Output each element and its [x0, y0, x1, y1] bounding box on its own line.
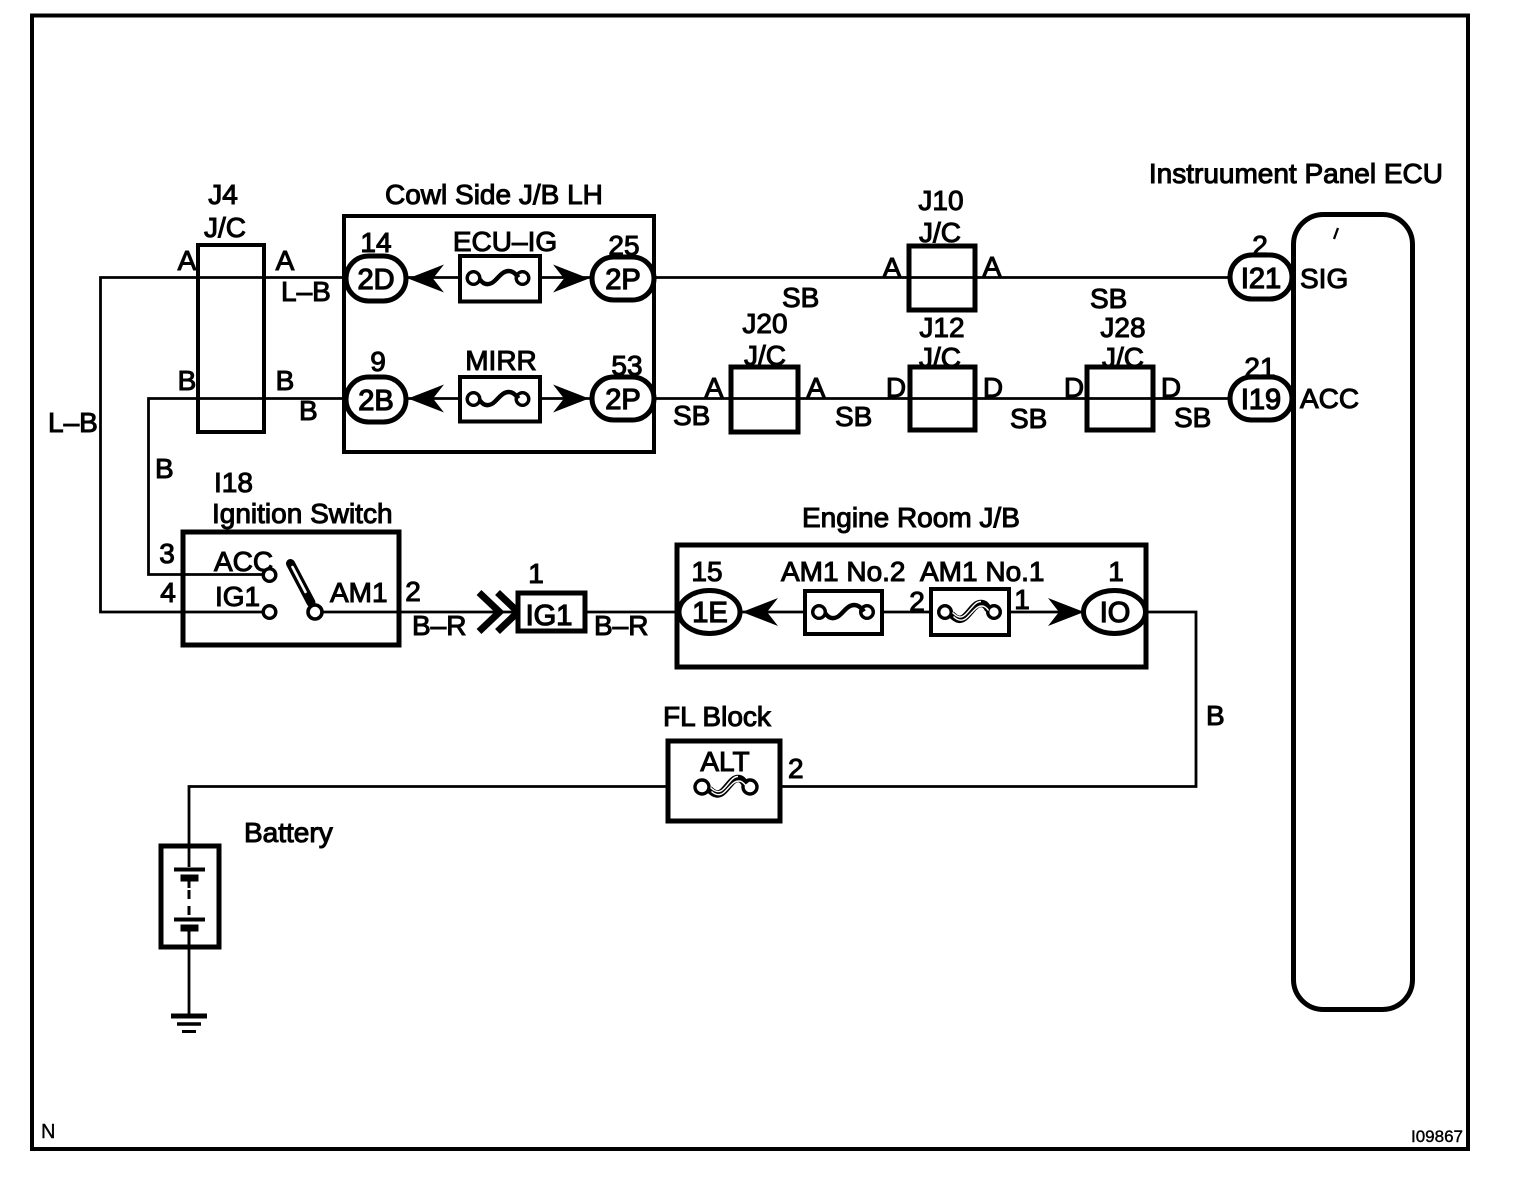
svg-text:FL Block: FL Block: [663, 701, 772, 732]
Cowl Side J/B LH block: [344, 216, 654, 452]
svg-text:2P: 2P: [605, 264, 640, 296]
connector 2D pin 14: [346, 256, 406, 301]
switch terminal IG1: [263, 606, 276, 619]
junction connector J12 J/C: [910, 367, 975, 430]
svg-text:D: D: [886, 372, 906, 403]
svg-text:2: 2: [909, 586, 925, 617]
fuse AM1 No.2: [805, 591, 882, 634]
svg-text:L–B: L–B: [48, 407, 98, 438]
wire: fuse row A inside Cowl Side J/B (2D to 2P): [406, 276, 592, 279]
svg-text:2: 2: [1252, 230, 1268, 261]
svg-text:I18: I18: [214, 467, 253, 498]
wire SB: row B from 2P through J20, J12, J28 to I19: [654, 397, 1231, 400]
svg-text:4: 4: [160, 577, 176, 608]
svg-text:N: N: [41, 1121, 55, 1143]
connector 2P pin 25: [592, 257, 654, 300]
svg-text:14: 14: [360, 227, 391, 258]
svg-text:Instruument Panel ECU: Instruument Panel ECU: [1149, 158, 1443, 189]
svg-text:9: 9: [370, 346, 386, 377]
svg-text:1: 1: [1108, 556, 1124, 587]
fuse MIRR: [460, 377, 540, 422]
svg-text:D: D: [1161, 372, 1181, 403]
svg-text:2: 2: [405, 576, 421, 607]
ground: [171, 1016, 207, 1032]
svg-text:B–R: B–R: [594, 610, 648, 641]
svg-text:15: 15: [691, 556, 722, 587]
arrowhead left (to 2B): [408, 385, 444, 413]
svg-text:J12: J12: [919, 312, 964, 343]
svg-text:SB: SB: [1174, 402, 1211, 433]
svg-text:2D: 2D: [357, 264, 394, 296]
inline connector chevrons: [479, 593, 500, 632]
svg-text:J10: J10: [918, 185, 963, 216]
svg-text:L–B: L–B: [281, 276, 331, 307]
arrowhead right (to IO): [1048, 598, 1084, 626]
wire: battery negative to ground: [188, 947, 191, 1016]
arrowhead left (to 2D): [408, 265, 444, 293]
svg-text:ACC: ACC: [1300, 383, 1359, 414]
switch lever: [291, 564, 312, 603]
svg-text:B: B: [155, 453, 174, 484]
wire: inside Engine Room J/B (1E to IO): [740, 611, 1084, 614]
svg-text:A: A: [276, 245, 295, 276]
switch terminal AM1: [308, 605, 322, 619]
battery: [161, 846, 219, 947]
svg-text:J/C: J/C: [204, 212, 246, 243]
fusible link AM1 No.1: [931, 589, 1009, 635]
svg-text:ALT: ALT: [700, 746, 749, 777]
svg-text:J/C: J/C: [919, 342, 961, 373]
svg-text:AM1 No.2: AM1 No.2: [781, 556, 906, 587]
svg-text:A: A: [178, 245, 197, 276]
wire B-R: ignition switch AM1 through IG1 connector to 1E: [323, 611, 681, 614]
svg-text:SB: SB: [835, 401, 872, 432]
Instrument Panel ECU block: [1294, 215, 1413, 1010]
fuse ECU-IG: [460, 256, 540, 302]
svg-text:A: A: [807, 372, 826, 403]
svg-text:2P: 2P: [605, 384, 640, 416]
wire L-B: row A from vertical riser to 2D, down to ignition switch IG1 terminal: [101, 278, 347, 613]
switch terminal ACC: [263, 569, 276, 582]
ignition switch I18: [183, 532, 399, 645]
svg-text:J28: J28: [1100, 312, 1145, 343]
svg-text:1: 1: [1014, 584, 1030, 615]
svg-text:AM1: AM1: [330, 577, 388, 608]
svg-text:MIRR: MIRR: [465, 345, 537, 376]
svg-text:J4: J4: [208, 179, 238, 210]
junction connector J10 J/C: [909, 246, 975, 310]
svg-text:A: A: [705, 372, 724, 403]
connector 1E pin 15: [679, 591, 740, 634]
svg-text:1E: 1E: [692, 597, 727, 629]
svg-text:B: B: [276, 365, 295, 396]
svg-text:J/C: J/C: [919, 217, 961, 248]
svg-text:D: D: [1064, 372, 1084, 403]
svg-text:SB: SB: [782, 282, 819, 313]
connector I19 pin 21: [1230, 377, 1292, 420]
wire SB: row A from 2P through J10 to I21: [654, 276, 1231, 279]
svg-text:AM1 No.1: AM1 No.1: [920, 556, 1045, 587]
svg-text:B–R: B–R: [412, 610, 466, 641]
fusible link ALT: [668, 741, 780, 821]
wire B: row B from riser to 2B, down to ignition switch ACC terminal: [149, 399, 347, 575]
svg-text:Cowl Side J/B LH: Cowl Side J/B LH: [385, 179, 603, 210]
svg-text:A: A: [983, 251, 1002, 282]
speck inside ECU: [1334, 228, 1338, 239]
connector 2P pin 53: [592, 377, 654, 420]
svg-text:J20: J20: [742, 308, 787, 339]
svg-text:D: D: [983, 372, 1003, 403]
svg-text:B: B: [299, 395, 318, 426]
svg-text:25: 25: [608, 230, 639, 261]
connector IO pin 1: [1084, 591, 1146, 634]
svg-text:Ignition Switch: Ignition Switch: [212, 498, 393, 529]
svg-text:2B: 2B: [358, 385, 393, 417]
arrowhead right (to 2P 53): [553, 385, 589, 413]
svg-text:A: A: [883, 252, 902, 283]
svg-text:IG1: IG1: [526, 600, 573, 632]
svg-text:B: B: [1206, 700, 1225, 731]
svg-text:1: 1: [528, 558, 544, 589]
svg-text:B: B: [178, 365, 197, 396]
svg-text:3: 3: [159, 538, 175, 569]
svg-text:21: 21: [1244, 352, 1275, 383]
arrowhead right (to 2P 25): [553, 265, 589, 293]
svg-text:IO: IO: [1100, 597, 1131, 629]
wire B: from IO down and left through ALT to battery: [189, 612, 1196, 847]
connector I21 pin 2: [1230, 255, 1292, 299]
junction connector J4 J/C: [198, 245, 264, 432]
svg-text:SB: SB: [1010, 403, 1047, 434]
svg-text:I09867: I09867: [1411, 1127, 1463, 1146]
svg-text:J/C: J/C: [1102, 342, 1144, 373]
svg-text:IG1: IG1: [215, 581, 260, 612]
svg-text:Battery: Battery: [244, 817, 333, 848]
arrowhead left (to 1E): [742, 598, 778, 626]
Engine Room J/B block: [677, 545, 1146, 667]
svg-text:SB: SB: [673, 400, 710, 431]
svg-text:I19: I19: [1241, 384, 1281, 416]
junction connector J28 J/C: [1087, 367, 1153, 430]
connector 2B pin 9: [346, 377, 406, 422]
svg-text:Engine Room J/B: Engine Room J/B: [802, 502, 1020, 533]
svg-text:J/C: J/C: [744, 340, 786, 371]
svg-text:SIG: SIG: [1300, 263, 1348, 294]
svg-text:53: 53: [611, 350, 642, 381]
junction connector J20 J/C: [731, 367, 798, 432]
svg-text:I21: I21: [1241, 263, 1281, 295]
svg-text:SB: SB: [1090, 283, 1127, 314]
svg-text:ECU–IG: ECU–IG: [453, 226, 557, 257]
svg-text:2: 2: [788, 753, 804, 784]
connector IG1 pin 1: [518, 593, 585, 631]
wire: fuse row B inside Cowl Side J/B (2B to 2P): [406, 397, 592, 400]
